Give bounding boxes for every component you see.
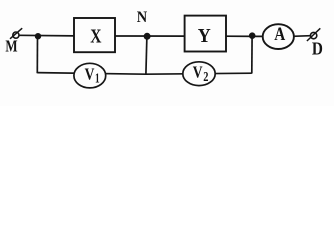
- node N junction: [144, 33, 151, 40]
- wire M terminal to box X: [19, 34, 75, 37]
- voltmeter V2: [183, 62, 215, 86]
- voltmeter V1: [74, 63, 106, 88]
- wire box X to box Y through node N: [115, 35, 186, 37]
- label M: [5, 37, 17, 56]
- label D: [312, 39, 323, 59]
- svg-text:V: V: [85, 64, 95, 83]
- svg-text:V: V: [193, 63, 203, 82]
- svg-text:1: 1: [95, 72, 100, 87]
- svg-text:M: M: [5, 37, 17, 56]
- wire bottom branch: [37, 73, 252, 75]
- wire box Y to ammeter: [226, 35, 266, 37]
- wire middle vertical drop from node N: [146, 36, 147, 74]
- component box Y: [185, 16, 226, 52]
- wire right vertical drop: [251, 36, 253, 74]
- terminal M: [10, 28, 22, 39]
- svg-text:X: X: [90, 27, 101, 48]
- component box X: [74, 18, 115, 52]
- svg-text:A: A: [274, 25, 286, 45]
- svg-text:D: D: [312, 39, 323, 59]
- ammeter U1: [263, 24, 294, 49]
- node junction at M: [35, 33, 41, 39]
- label N: [137, 8, 148, 26]
- svg-text:2: 2: [203, 70, 208, 85]
- svg-text:Y: Y: [198, 25, 211, 47]
- wire left vertical drop: [36, 36, 38, 74]
- svg-text:N: N: [137, 8, 148, 26]
- node junction right: [249, 32, 256, 39]
- terminal D: [307, 28, 320, 41]
- wire ammeter to D terminal: [293, 35, 311, 38]
